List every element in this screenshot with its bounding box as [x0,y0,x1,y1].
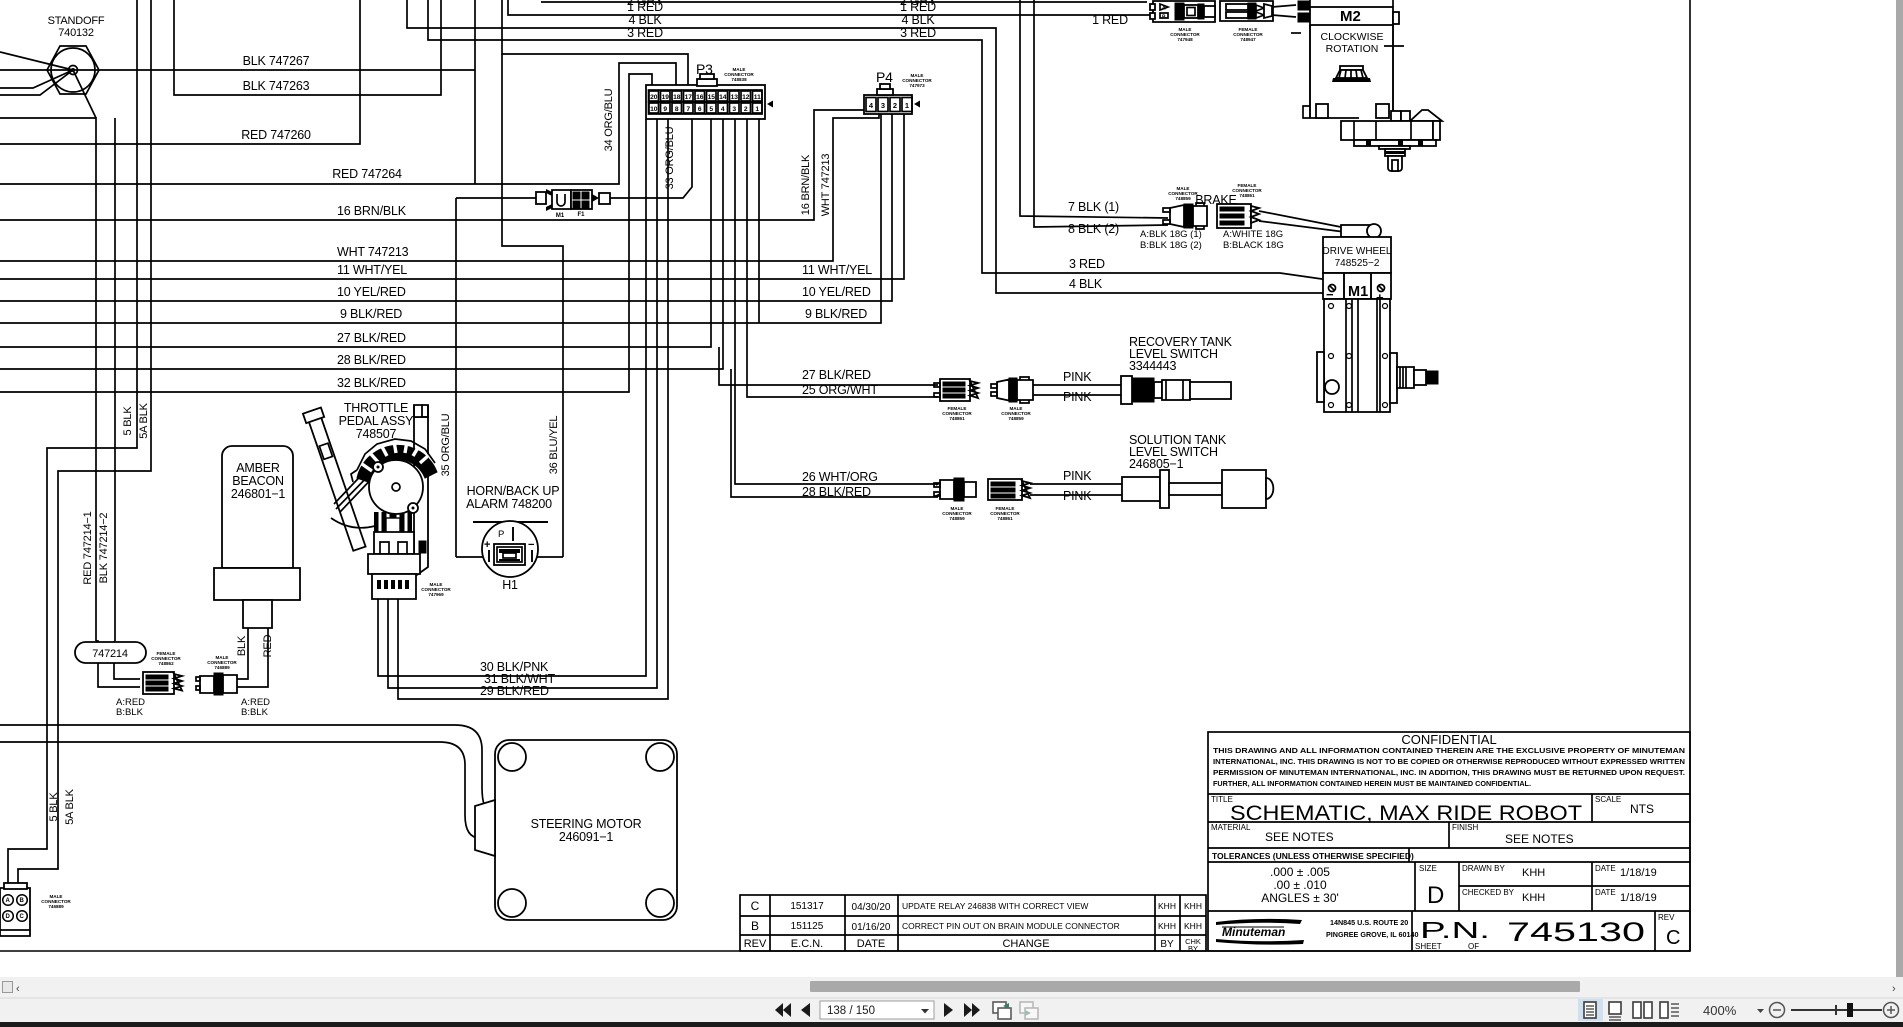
svg-text:PINK: PINK [1063,469,1092,483]
P3 pin 11 [753,91,763,101]
svg-text:4 BLK: 4 BLK [1069,277,1103,291]
recovery connector pair female 748861 / male 748859 [934,370,1121,421]
P3 pin 6 [695,103,705,113]
svg-text:11 WHT/YEL: 11 WHT/YEL [802,263,872,277]
bottom-left male connector 746889 [0,883,71,936]
svg-text:3344443: 3344443 [1129,359,1177,373]
wire 28 BLK/RED to solution switch [731,369,938,499]
svg-text:A: A [6,898,11,904]
P3 pin 9 [661,103,671,113]
P4 pin 4 [866,98,876,112]
SCHEMATIC CONTENT [0,0,1385,888]
svg-text:PERMISSION OF MINUTEMAN INT: PERMISSION OF MINUTEMAN INTERNATIONAL, I… [1213,770,1685,777]
svg-text:1 RED: 1 RED [627,0,663,14]
svg-text:748859: 748859 [949,516,965,521]
svg-text:32 BLK/RED: 32 BLK/RED [337,376,406,390]
wire RED 747260 [0,0,360,144]
svg-text:3: 3 [881,101,885,110]
svg-text:HORN/BACK UP: HORN/BACK UP [467,484,560,498]
svg-text:DRAWN BY: DRAWN BY [1462,864,1505,873]
svg-text:‹: ‹ [16,983,20,995]
svg-text:34 ORG/BLU: 34 ORG/BLU [603,88,615,151]
P3 pin 13 [730,91,740,101]
P3 pin 12 [741,91,751,101]
wheel shaft [1397,367,1414,388]
svg-text:P: P [498,529,504,540]
svg-text:748861: 748861 [949,416,965,421]
wire WHT 747213 [0,114,879,261]
svg-text:01/16/20: 01/16/20 [852,922,891,933]
P3 pin 20 [649,91,659,101]
brush symbol [1332,66,1371,82]
wire 25 ORG/WHT [747,119,938,397]
housing fan (black band with slots) [351,439,437,482]
svg-text:DATE: DATE [1595,864,1616,873]
lower grill [374,512,412,538]
pedal link rods [331,464,378,528]
throttle pedal assy 748507 [303,401,452,599]
svg-text:5: 5 [709,106,713,113]
svg-text:D: D [1427,882,1444,909]
svg-text:THIS DRAWING AND ALL INFOR: THIS DRAWING AND ALL INFORMATION CONTAIN… [1213,748,1685,755]
wire 5A BLK [18,0,151,888]
svg-text:33 ORG/BLU: 33 ORG/BLU [664,126,676,189]
svg-text:.00 ± .010: .00 ± .010 [1273,878,1327,892]
P3 pin 7 [684,103,694,113]
wire 11 WHT/YEL [0,114,904,279]
svg-text:A: A [1162,6,1166,12]
svg-text:29 BLK/RED: 29 BLK/RED [480,684,549,698]
svg-text:CLOCKWISE: CLOCKWISE [1320,31,1383,43]
svg-text:PINK: PINK [1063,370,1092,384]
P3 pin 14 [718,91,728,101]
svg-text:748859: 748859 [1175,196,1191,201]
title block [1208,732,1690,951]
wire 28 BLK/RED [0,119,723,369]
svg-text:400%: 400% [1703,1003,1737,1018]
wire beacon BLK [236,628,248,679]
wire 30 BLK/PNK [378,119,646,676]
svg-text:5 BLK: 5 BLK [122,406,134,436]
svg-text:STANDOFF: STANDOFF [48,15,105,27]
svg-text:246091−1: 246091−1 [559,830,614,844]
svg-text:DATE: DATE [857,938,886,950]
svg-text:BY: BY [1160,939,1174,950]
svg-text:H1: H1 [502,578,518,592]
svg-text:8 BLK (2): 8 BLK (2) [1068,222,1119,236]
svg-text:RED 747260: RED 747260 [241,128,311,142]
svg-text:3: 3 [732,106,736,113]
P4 pin 1 [902,98,912,112]
amber beacon 246801-1 [214,446,300,628]
svg-text:BEACON: BEACON [232,474,284,488]
wire BLK 747263 [174,0,441,95]
svg-text:KHH: KHH [1158,901,1176,911]
svg-text:ANGLES ± 30': ANGLES ± 30' [1261,891,1339,905]
svg-text:SIZE: SIZE [1419,864,1437,873]
svg-text:7 BLK (1): 7 BLK (1) [1068,200,1119,214]
svg-text:KHH: KHH [1158,921,1176,931]
wire 8 BLK (2) [1034,0,1168,236]
wire 7 BLK (1) [1020,0,1168,218]
svg-text:138 / 150: 138 / 150 [827,1005,875,1017]
svg-text:19: 19 [662,94,670,101]
pedal lever [303,408,368,552]
sheet border bottom [0,950,1690,952]
label 747214 oval [75,642,146,663]
wire 31 BLK/WHT [388,119,657,688]
svg-text:CONFIDENTIAL: CONFIDENTIAL [1401,732,1496,747]
wire stub lower-left 2 [0,70,73,95]
svg-text:.000 ± .005: .000 ± .005 [1270,865,1330,879]
wire 9 BLK/RED [0,114,881,323]
svg-text:36 BLU/YEL: 36 BLU/YEL [548,416,560,475]
svg-text:REV: REV [744,938,767,950]
svg-text:RED: RED [262,634,274,657]
wire RED 747264 / BLK 747267 riser [0,0,676,184]
P3 pin 17 [684,91,694,101]
svg-text:TOLERANCES (UNLESS OTHERWISE: TOLERANCES (UNLESS OTHERWISE SPECIFIED) [1212,851,1414,861]
svg-text:5A BLK: 5A BLK [64,788,76,824]
svg-text:STEERING MOTOR: STEERING MOTOR [531,817,642,831]
svg-text:B:BLK: B:BLK [241,707,269,718]
wire x115 bus [114,118,116,641]
svg-text:748947: 748947 [1240,37,1256,42]
oval connector female 748862 [116,651,182,718]
svg-text:DATE: DATE [1595,888,1616,897]
P3 pin 2 [741,103,751,113]
P3 pin 15 [707,91,717,101]
wire from standoff up-left [0,52,73,70]
svg-text:PINGREE GROVE, IL 60140: PINGREE GROVE, IL 60140 [1326,930,1419,939]
svg-text:M1: M1 [556,213,565,219]
svg-text:M2: M2 [1340,8,1361,25]
svg-text:B:BLACK 18G: B:BLACK 18G [1223,240,1284,251]
svg-text:27 BLK/RED: 27 BLK/RED [802,368,871,382]
svg-text:FURTHER, ALL INFORMATION CO: FURTHER, ALL INFORMATION CONTAINED HEREI… [1213,781,1531,788]
svg-text:SEE NOTES: SEE NOTES [1265,830,1334,844]
svg-text:P4: P4 [876,69,893,85]
svg-text:1/18/19: 1/18/19 [1620,867,1657,879]
svg-text:151125: 151125 [791,921,824,932]
standoff 740132 [47,15,105,94]
wire 29 BLK/RED [398,119,668,699]
wire to node at x96 [73,70,96,118]
svg-text:1: 1 [905,101,909,110]
svg-text:CHANGE: CHANGE [1002,938,1049,950]
svg-text:KHH: KHH [1184,921,1202,931]
svg-text:4 BLK: 4 BLK [901,13,935,27]
connector P4 [864,69,932,114]
svg-text:748861: 748861 [1239,193,1255,198]
svg-text:14N845 U.S. ROUTE 20: 14N845 U.S. ROUTE 20 [1330,918,1408,927]
fuse M1 F1 [536,189,610,219]
svg-text:26 WHT/ORG: 26 WHT/ORG [802,470,878,484]
svg-text:PINK: PINK [1063,390,1092,404]
svg-text:746889: 746889 [48,904,64,909]
svg-text:11 WHT/YEL: 11 WHT/YEL [337,263,407,277]
svg-text:+: + [484,539,490,551]
wire BLK 747267 [0,54,475,70]
svg-text:20: 20 [650,94,658,101]
svg-text:246805−1: 246805−1 [1129,457,1184,471]
svg-text:›: › [1892,983,1896,995]
svg-text:748859: 748859 [1008,416,1024,421]
svg-text:27 BLK/RED: 27 BLK/RED [337,331,406,345]
svg-text:KHH: KHH [1184,901,1202,911]
svg-text:16 BRN/BLK: 16 BRN/BLK [337,204,407,218]
svg-text:5A BLK: 5A BLK [138,402,150,438]
wire 1 RED [508,0,1153,27]
svg-text:E.C.N.: E.C.N. [791,938,823,950]
horn H1 748200 [456,484,563,592]
svg-text:UPDATE RELAY 246838 WITH C: UPDATE RELAY 246838 WITH CORRECT VIEW [902,901,1088,911]
svg-text:BLK: BLK [236,635,248,656]
svg-text:14: 14 [719,94,727,101]
svg-text:740132: 740132 [58,27,94,39]
P4 pin 2 [890,98,900,112]
svg-text:RED 747264: RED 747264 [332,167,402,181]
bracket [414,417,428,577]
svg-text:2: 2 [744,106,748,113]
wire 27 BLK/RED [0,119,711,347]
motor M2 brush assembly [1291,0,1442,171]
wire steering 1 [0,725,492,812]
wire 5 BLK [8,0,137,888]
svg-text:748861: 748861 [997,516,1013,521]
svg-text:16 BRN/BLK: 16 BRN/BLK [800,154,812,215]
brake male connector 748859 [1163,186,1207,229]
svg-text:17: 17 [685,94,693,101]
connector P3 [646,61,773,119]
svg-text:747969: 747969 [428,592,444,597]
svg-text:13: 13 [731,94,739,101]
solution tank level switch 246805-1 [1122,433,1273,508]
P3 pin 10 [649,103,659,113]
svg-text:BLK 747263: BLK 747263 [243,79,310,93]
wire 10 YEL/RED [0,114,892,301]
svg-text:THROTTLE: THROTTLE [344,401,408,415]
svg-text:ROTATION: ROTATION [1326,43,1379,55]
svg-text:CORRECT PIN OUT ON BRAIN: CORRECT PIN OUT ON BRAIN MODULE CONNECTO… [902,921,1120,931]
svg-text:BLK 747267: BLK 747267 [243,54,310,68]
svg-text:P3: P3 [696,61,713,77]
svg-text:NTS: NTS [1630,802,1654,816]
svg-text:A:BLK 18G (1): A:BLK 18G (1) [1140,229,1202,240]
svg-text:747214: 747214 [92,648,128,660]
svg-text:DRIVE WHEEL: DRIVE WHEEL [1323,246,1392,257]
svg-text:−: − [528,539,534,551]
svg-text:B:BLK 18G (2): B:BLK 18G (2) [1140,240,1202,251]
svg-text:RED 747214−1: RED 747214−1 [82,511,94,584]
P4 pin 3 [878,98,888,112]
svg-text:18: 18 [673,94,681,101]
wire 4 BLK [407,0,1328,293]
svg-text:35 ORG/BLU: 35 ORG/BLU [440,413,452,476]
svg-text:C: C [1666,927,1680,949]
svg-text:8: 8 [675,106,679,113]
P3 pin 5 [707,103,717,113]
svg-text:4 BLK: 4 BLK [628,13,662,27]
gearbox [1303,106,1359,118]
wire 26 WHT/ORG [735,119,938,484]
svg-text:C: C [20,914,25,920]
wire 33 ORG/BLU [610,119,692,198]
svg-text:B: B [751,919,759,933]
female connector 748947 (top) [1220,1,1296,42]
svg-text:9: 9 [663,106,667,113]
svg-text:ALARM 748200: ALARM 748200 [466,497,552,511]
svg-text:3 RED: 3 RED [627,26,663,40]
svg-text:2: 2 [893,101,897,110]
wire stub lower-left 1 [0,70,73,88]
wire BLK 747214-2 [98,513,140,687]
svg-text:OF: OF [1468,942,1479,951]
P3 pin 4 [718,103,728,113]
svg-text:04/30/20: 04/30/20 [852,902,891,913]
svg-text:B: B [1162,15,1166,21]
male connector 747948 (top) [1150,1,1215,42]
svg-text:P.N.: P.N. [1420,917,1490,943]
svg-text:9 BLK/RED: 9 BLK/RED [340,307,402,321]
svg-text:KHH: KHH [1522,892,1545,904]
steering motor 246091-1 [475,740,677,920]
svg-text:10 YEL/RED: 10 YEL/RED [337,285,406,299]
drive wheel M1 748525-2 [1317,224,1438,412]
svg-text:246801−1: 246801−1 [231,487,286,501]
wire node x96 bus [0,118,96,641]
svg-text:151317: 151317 [790,901,824,912]
svg-text:748862: 748862 [158,661,174,666]
svg-text:C: C [751,899,760,913]
svg-text:1: 1 [755,106,759,113]
svg-text:PEDAL ASSY: PEDAL ASSY [339,414,415,428]
svg-text:11: 11 [754,94,761,101]
wire 27 BLK/RED to recovery switch [719,347,938,385]
svg-text:28 BLK/RED: 28 BLK/RED [802,485,871,499]
svg-text:SHEET: SHEET [1415,942,1442,951]
wire top GRY [541,1,1147,3]
P3 pin 3 [730,103,740,113]
svg-text:9 BLK/RED: 9 BLK/RED [805,307,867,321]
lower connector assembly [374,532,414,554]
svg-text:D: D [6,914,11,920]
svg-text:WHT 747213: WHT 747213 [337,245,409,259]
solution connector pair male / female [934,469,1122,521]
svg-text:748838: 748838 [731,77,747,82]
wire beacon RED [237,628,274,687]
svg-text:B: B [20,898,25,904]
P3 pin 19 [661,91,671,101]
wire 16 BRN/BLK [0,110,866,220]
svg-text:7: 7 [686,106,690,113]
svg-text:PINK: PINK [1063,489,1092,503]
svg-text:CHECKED BY: CHECKED BY [1462,888,1515,897]
svg-text:1 RED: 1 RED [1092,13,1128,27]
wire steering 2 [0,742,480,838]
svg-text:AMBER: AMBER [236,461,280,475]
P3 pin 8 [672,103,682,113]
svg-text:REV: REV [1658,913,1675,922]
svg-text:SCALE: SCALE [1595,795,1621,804]
P3 pin 1 [753,103,763,113]
svg-text:6: 6 [698,106,702,113]
svg-text:KHH: KHH [1522,867,1545,879]
svg-text:A:WHITE 18G: A:WHITE 18G [1223,229,1283,240]
P3 pin 18 [672,91,682,101]
svg-text:MATERIAL: MATERIAL [1211,823,1251,832]
svg-text:15: 15 [708,94,716,101]
svg-text:WHT 747213: WHT 747213 [820,154,832,217]
svg-text:745130: 745130 [1507,917,1645,947]
svg-text:F1: F1 [577,212,585,218]
P3 pin 16 [695,91,705,101]
svg-text:1 RED: 1 RED [900,0,936,14]
svg-text:25 ORG/WHT: 25 ORG/WHT [802,383,878,397]
wire 32 BLK/RED [0,74,652,392]
svg-text:747973: 747973 [909,83,925,88]
wire 35 ORG/BLU / M1 feed [440,198,539,557]
wire RED 747214-1 [82,511,98,672]
svg-text:3 RED: 3 RED [900,26,936,40]
brake female connector 748861 [1217,183,1345,232]
svg-text:746889: 746889 [214,665,230,670]
svg-text:3 RED: 3 RED [1069,257,1105,271]
svg-text:10: 10 [650,106,658,113]
svg-text:28 BLK/RED: 28 BLK/RED [337,353,406,367]
svg-text:M1: M1 [1348,284,1368,300]
revision table [740,895,1206,953]
svg-text:16: 16 [696,94,704,101]
svg-text:4: 4 [721,106,725,113]
svg-text:SEE NOTES: SEE NOTES [1505,832,1574,846]
svg-text:B:BLK: B:BLK [116,707,144,718]
svg-text:10 YEL/RED: 10 YEL/RED [802,285,871,299]
sheet border right [1689,0,1691,951]
amber beacon connector male 746889 [196,655,270,718]
minuteman logo [1216,919,1304,945]
wire 36 BLU/YEL [502,0,688,557]
svg-text:748507: 748507 [356,427,397,441]
svg-text:1/18/19: 1/18/19 [1620,892,1657,904]
svg-text:12: 12 [742,94,750,101]
recovery tank level switch 3344443 [1121,335,1233,404]
svg-text:747948: 747948 [1177,37,1193,42]
svg-text:FINISH: FINISH [1452,823,1478,832]
wire 3 RED [428,0,1385,288]
svg-text:INTERNATIONAL, INC. THIS DR: INTERNATIONAL, INC. THIS DRAWING IS NOT … [1213,759,1685,766]
svg-text:BLK 747214−2: BLK 747214−2 [98,513,110,584]
svg-text:748525−2: 748525−2 [1335,258,1380,269]
